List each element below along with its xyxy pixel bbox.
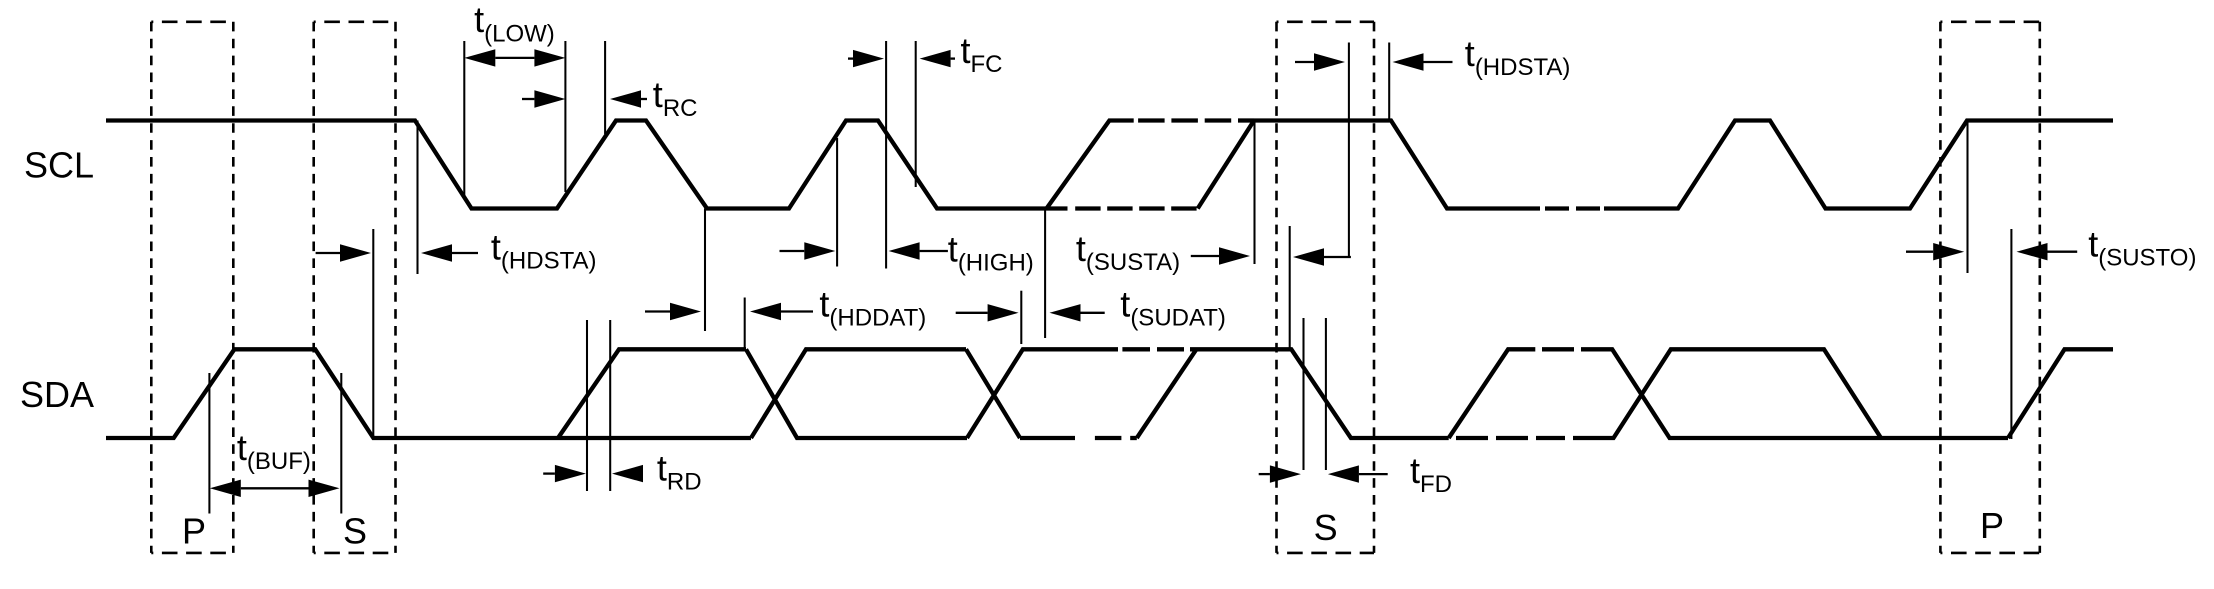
- tFD left ref line: [1302, 318, 1304, 470]
- t(HDSTA) arrow left-pointing: [421, 244, 452, 261]
- t(BUF) double arrow: [210, 480, 241, 497]
- t(HDSTA)2 arrow left-pointing: [1393, 53, 1424, 70]
- node P box right (STOP): [1940, 22, 2039, 553]
- wire SDA left section (low, P pulse, low): [106, 349, 751, 438]
- wire SDA final rise to high: [2008, 349, 2113, 438]
- t(HDDAT) arrow right-pointing: [670, 303, 701, 320]
- wire SDA crossover X2 rise: [967, 349, 1118, 438]
- svg-text:tFC: tFC: [961, 30, 1003, 78]
- tRD arrow left-pointing: [612, 465, 643, 482]
- tFC right ref line: [915, 41, 917, 187]
- t(LOW) left ref line: [463, 41, 465, 196]
- t(HDDAT) left ref line: [704, 209, 706, 332]
- wire SCL right section: [1604, 121, 2113, 209]
- t(LOW) double arrow: [464, 49, 495, 66]
- t(HIGH)/tFC shared ref line: [885, 41, 887, 269]
- t(HDDAT) right ref line: [744, 298, 746, 350]
- t(HIGH) arrow left-pointing: [889, 242, 920, 259]
- t(HDSTA) arrow right-pointing: [340, 244, 371, 261]
- t(SUSTA) right ref line: [1289, 226, 1291, 349]
- svg-text:S: S: [343, 510, 367, 551]
- t(SUSTA) arrow right-pointing: [1219, 247, 1250, 264]
- t(LOW) right ref line: [564, 41, 566, 192]
- t(HIGH) left ref line: [836, 138, 838, 267]
- tRD arrow right-pointing: [555, 465, 586, 482]
- t(HDDAT) arrow left-pointing: [750, 303, 781, 320]
- t(SUSTO) arrow left-pointing: [2017, 243, 2048, 260]
- svg-text:t(HDSTA): t(HDSTA): [491, 227, 597, 275]
- t(HDSTA)2 arrow right-pointing: [1314, 53, 1345, 70]
- wire SCL solid rise G: [1198, 121, 1254, 209]
- wire SDA high stub into X3 fall: [1605, 349, 2008, 438]
- node P box left (STOP): [151, 22, 233, 553]
- tRC right ref line: [604, 41, 606, 134]
- t(SUSTA) left ref line: [1253, 121, 1255, 264]
- node S box right (repeated START): [1277, 22, 1375, 553]
- wire SDA low stub after X2: [1020, 436, 1075, 440]
- svg-text:P: P: [1980, 505, 2004, 546]
- svg-text:t(BUF): t(BUF): [237, 427, 311, 475]
- t(SUDAT) left ref line: [1020, 291, 1022, 344]
- tRC setup arrow (right): [534, 90, 565, 107]
- t(HDSTA) SCL-fall ref line: [416, 121, 418, 275]
- wire SCL high through S + fall: [1254, 121, 1540, 209]
- wire SDA rise to data valid + high + fall into S: [1137, 349, 1449, 438]
- tFD arrow right-pointing: [1270, 465, 1301, 482]
- svg-text:tRD: tRD: [657, 448, 702, 496]
- t(HIGH) arrow right-pointing: [804, 242, 835, 259]
- t(SUSTO) right ref line: [2010, 229, 2012, 439]
- wire SDA crossover X1 fall: [746, 349, 967, 438]
- tFD arrow left-pointing: [1328, 465, 1359, 482]
- wire SCL dashed low segment: [1075, 206, 1100, 210]
- t(SUDAT) right ref line: [1044, 209, 1046, 339]
- t(SUDAT) arrow right-pointing: [988, 304, 1019, 321]
- wire SDA rise after S + high: [558, 349, 746, 438]
- tFD right ref line: [1325, 318, 1327, 470]
- wire SDA dashed high 2: [1542, 347, 1574, 351]
- svg-text:t(SUSTO): t(SUSTO): [2088, 224, 2196, 272]
- svg-text:t(HDSTA): t(HDSTA): [1465, 33, 1571, 81]
- wire SDA rise + high stub: [1449, 349, 1536, 438]
- svg-text:t(SUSTA): t(SUSTA): [1076, 228, 1180, 276]
- tRD left ref line: [586, 320, 588, 491]
- t(BUF) right ref line: [340, 373, 342, 514]
- wire SDA low stub into X3 rise: [1597, 349, 1881, 438]
- svg-text:t(HDDAT): t(HDDAT): [819, 284, 926, 332]
- tFC arrow left-pointing: [920, 50, 951, 67]
- svg-text:t(SUDAT): t(SUDAT): [1120, 284, 1226, 332]
- wire SDA crossover X1 rise: [751, 349, 966, 438]
- wire SDA dashed low: [1095, 436, 1122, 440]
- svg-text:S: S: [1314, 507, 1338, 548]
- t(HDSTA)2 right ref line: [1388, 43, 1390, 121]
- tFC arrow right-pointing: [853, 50, 884, 67]
- wire SDA dashed low 2: [1456, 436, 1488, 440]
- wire SDA crossover X2 fall: [966, 349, 1020, 438]
- svg-text:SDA: SDA: [20, 374, 94, 415]
- node S box left (START): [314, 22, 396, 553]
- t(SUDAT) arrow left-pointing: [1050, 304, 1081, 321]
- t(SUSTO) arrow right-pointing: [1933, 243, 1964, 260]
- svg-text:tFD: tFD: [1410, 450, 1452, 498]
- svg-text:t(LOW): t(LOW): [474, 0, 555, 47]
- svg-text:tRC: tRC: [653, 74, 698, 122]
- t(HDSTA)2 left ref line: [1348, 43, 1350, 258]
- svg-text:t(HIGH): t(HIGH): [948, 229, 1034, 277]
- wire SCL main left (high, falls, humps): [106, 121, 1068, 209]
- wire SCL solid rise F + high stub: [1047, 121, 1134, 209]
- svg-text:SCL: SCL: [24, 145, 94, 186]
- tRD right ref line: [609, 320, 611, 491]
- wire SDA dashed high: [1122, 347, 1150, 351]
- t(SUSTO) left ref line: [1966, 121, 1968, 273]
- t(SUSTA) arrow left-pointing: [1293, 248, 1324, 265]
- tRC arrow (left-pointing): [610, 90, 641, 107]
- wire SCL dashed high segment: [1138, 118, 1165, 122]
- t(BUF) left ref line: [208, 373, 210, 514]
- t(HDSTA) SDA-fall ref line: [372, 229, 374, 438]
- wire SCL dashed low 2: [1545, 206, 1569, 210]
- svg-text:P: P: [182, 510, 206, 551]
